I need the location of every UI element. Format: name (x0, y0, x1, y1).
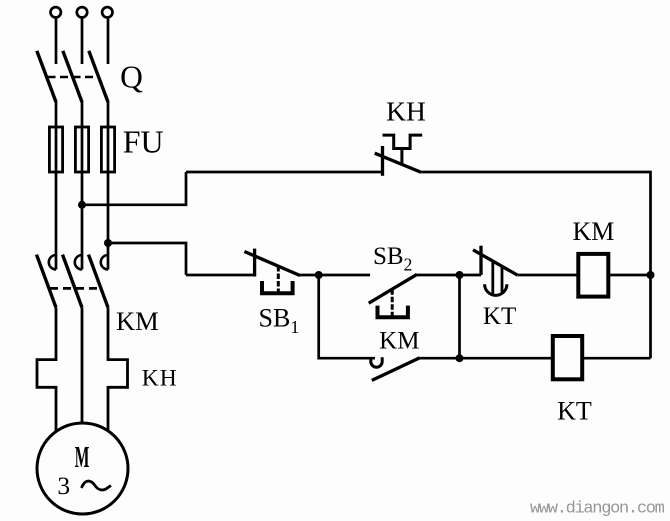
wire pole3 Q to fuse (107, 102, 110, 128)
pushbutton SB1 (NC stop) (244, 249, 300, 294)
wire KT contact to KM coil (518, 274, 578, 277)
contact KH (NC, thermal relay) (375, 135, 423, 176)
label ~ (phase tilde) (82, 481, 112, 490)
node junction on L3 to control second rail (104, 239, 112, 247)
switch Q pole 3 blade (89, 51, 108, 102)
thermal overload KH heater pole 3 (108, 308, 128, 431)
svg-text:KM: KM (116, 306, 159, 336)
thermal overload KH heater pole 2 (straight through) (81, 308, 84, 424)
wire KM aux to node (420, 357, 460, 360)
pushbutton SB2 (NO start) (369, 274, 417, 317)
contactor KM main contact pole 3 (89, 255, 109, 308)
switch Q pole 2 blade (63, 51, 82, 102)
wire node down link (458, 275, 461, 358)
wire node to KT coil (460, 357, 554, 360)
svg-text:FU: FU (123, 124, 164, 160)
wire L1 drop (55, 18, 58, 65)
svg-text:KH: KH (142, 366, 178, 392)
svg-text:www.diangon.com: www.diangon.com (530, 500, 665, 519)
wire second rail to SB1 (186, 274, 255, 277)
wire node to KT contact (460, 274, 482, 277)
node junction on L2 to control top rail (78, 201, 86, 209)
node right rail junction (647, 271, 655, 279)
fuse FU pole 2 (75, 127, 88, 172)
fuse FU pole 3 (101, 127, 114, 172)
terminal L2 (77, 7, 87, 17)
terminal L3 (102, 7, 112, 17)
svg-text:KT: KT (483, 303, 516, 330)
KM main contacts linkage (dashed) (50, 287, 103, 290)
svg-text:SB1: SB1 (259, 304, 300, 338)
contact KM aux (NO self-holding) (371, 357, 420, 380)
terminal L1 (51, 7, 61, 17)
wire pole3 fuse to KM contact (107, 172, 110, 270)
switch Q pole 1 blade (37, 51, 56, 102)
wire node to SB2 (319, 274, 370, 277)
contactor KM main contact pole 1 (37, 255, 57, 308)
thermal overload KH heater pole 1 (37, 308, 56, 432)
wire pole2 Q to fuse (81, 102, 84, 128)
wire L2 drop (81, 18, 84, 65)
contact KT (NC, on-delay) (473, 246, 518, 296)
wire pole1 Q to fuse (55, 102, 58, 128)
wire KM coil to right rail (609, 274, 651, 277)
node third rail junction (456, 354, 464, 362)
switch Q linkage (dashed) (48, 76, 97, 79)
wire SB2 to node (417, 274, 460, 277)
svg-text:M: M (75, 440, 90, 474)
coil KT (553, 336, 582, 379)
svg-text:KT: KT (557, 397, 592, 426)
svg-text:KH: KH (386, 96, 426, 127)
svg-text:SB2: SB2 (373, 243, 412, 274)
node SB2 right junction (456, 271, 464, 279)
wire right rail lower (649, 275, 652, 358)
wire branch L2 to top rail (82, 172, 186, 205)
wire SB1 node down to third rail (319, 275, 375, 358)
contactor KM main contact pole 2 (63, 255, 83, 308)
svg-text:KM: KM (379, 328, 419, 355)
svg-text:KM: KM (572, 217, 614, 246)
fuse FU pole 1 (49, 127, 62, 172)
node SB1 right junction (315, 271, 323, 279)
wire branch L3 to second rail (108, 243, 186, 275)
wire top rail left (186, 171, 383, 174)
coil KM (578, 254, 608, 297)
wire KT coil to right rail (582, 357, 651, 360)
wire L3 drop (107, 18, 110, 65)
motor M (37, 423, 128, 514)
wire top rail right (421, 172, 650, 275)
wire pole1 fuse to KM contact (55, 172, 58, 270)
wire SB1 to node (299, 274, 319, 277)
svg-text:3: 3 (57, 471, 70, 500)
wire pole2 fuse to KM contact (81, 172, 84, 270)
svg-text:Q: Q (120, 60, 143, 95)
